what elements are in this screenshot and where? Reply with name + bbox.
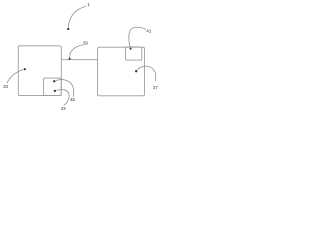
leader 43: [56, 90, 69, 106]
box 37 (right outer block): [98, 47, 145, 96]
box 43/45 (inner block, bottom-right of box 33): [44, 78, 62, 96]
svg-text:45: 45: [70, 97, 75, 102]
box 41 (inner block, top-right of box 37): [126, 47, 142, 60]
leader 45: [55, 80, 73, 97]
svg-text:33: 33: [3, 84, 8, 89]
svg-text:43: 43: [61, 106, 66, 111]
leader 33: [7, 70, 23, 84]
svg-text:1: 1: [87, 2, 90, 7]
leader 37: [137, 66, 155, 81]
wire 29 (connector between box 33 and box 37): [61, 59, 97, 61]
svg-text:37: 37: [153, 85, 158, 90]
leader 41: [129, 27, 146, 47]
leader 29: [70, 45, 83, 58]
leader 1: [68, 6, 86, 27]
svg-text:41: 41: [146, 29, 151, 34]
box 33 (left outer block): [18, 46, 61, 96]
svg-text:29: 29: [83, 40, 88, 45]
